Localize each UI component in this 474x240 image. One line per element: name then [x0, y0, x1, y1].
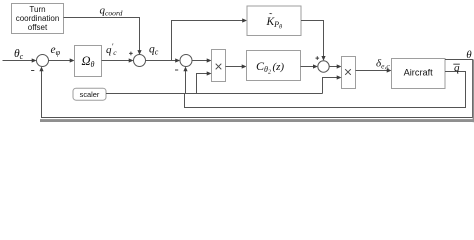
summing junction J1: [37, 55, 49, 67]
svg-text:q′c: q′c: [106, 42, 117, 57]
svg-text:θc: θc: [14, 48, 24, 61]
wire: C output to J4: [301, 64, 318, 68]
wire: branch from q_c up to Ktilde block: [172, 18, 248, 60]
block C_theta2(z): [247, 51, 301, 81]
svg-text:qcoord: qcoord: [100, 5, 123, 18]
block Ktilde_P_theta: [247, 6, 301, 36]
svg-text:eφ: eφ: [51, 44, 61, 57]
wire: Ktilde output down into J4: [301, 21, 326, 61]
wire: scaler line along bottom: [106, 93, 323, 95]
svg-text:Aircraft: Aircraft: [404, 67, 434, 77]
label plus at J2: [129, 52, 133, 56]
shadow band right of feedback loop: [473, 59, 474, 122]
wire: J2 to J3: [146, 58, 181, 62]
block Aircraft: [392, 59, 446, 89]
label minus at J1: [31, 70, 34, 72]
shadow band bottom of feedback loop: [40, 119, 474, 122]
wire: Omega output to J2: [102, 58, 134, 62]
wire: J3 to multiplier M1: [192, 58, 212, 62]
block scaler: [73, 88, 106, 100]
multiplier M1: [212, 50, 226, 82]
wire: feedback branch to M2 lower input: [323, 75, 342, 93]
svg-text:offset: offset: [28, 23, 48, 32]
wire: qbar output feedback to scaler line: [185, 72, 466, 108]
wire: feedback up into J3: [183, 67, 187, 94]
label plus at J4: [316, 56, 320, 60]
label minus at J3: [175, 69, 178, 71]
summing junction J4: [318, 61, 329, 72]
label qbar: [453, 62, 460, 74]
svg-text:scaler: scaler: [80, 90, 100, 99]
svg-text:δe,c: δe,c: [376, 58, 390, 71]
wire: M2 output to Aircraft (delta_e,c): [356, 68, 392, 72]
svg-text:coordination: coordination: [16, 14, 60, 23]
summing junction J2: [134, 55, 146, 67]
wire: turn coordination offset output to summing junction J2 (q_coord): [64, 18, 142, 55]
wire: M1 output to C block: [226, 64, 247, 68]
wire: theta_c input: [3, 58, 37, 62]
summing junction J3: [180, 55, 192, 67]
block Omega_theta: [75, 46, 102, 77]
block: Turn coordination offset: [12, 4, 64, 34]
wire: feedback branch to M1 lower input: [197, 71, 212, 93]
multiplier M2: [342, 57, 356, 89]
svg-text:Turn: Turn: [29, 5, 45, 14]
svg-text:qc: qc: [149, 43, 159, 56]
svg-text:θ: θ: [466, 49, 472, 61]
wire: J4 to multiplier M2: [329, 64, 341, 68]
wire: theta output feedback loop back to J1: [39, 60, 472, 118]
wire: J1 to Omega block: [49, 58, 75, 62]
